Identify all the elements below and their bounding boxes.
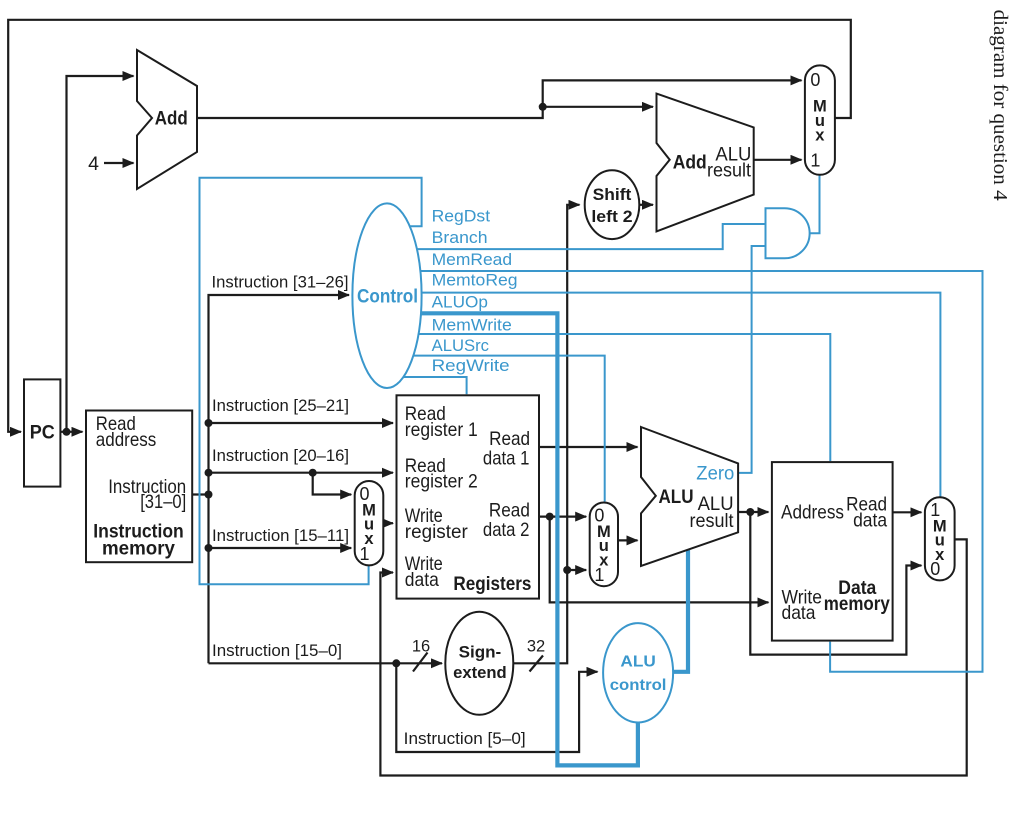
- svg-text:control: control: [610, 677, 667, 694]
- wire: Read data 2 to data memory Write data: [550, 517, 769, 603]
- registers file: [397, 395, 540, 598]
- svg-text:Read: Read: [489, 428, 530, 450]
- PC register: [24, 379, 60, 486]
- svg-text:left 2: left 2: [591, 207, 632, 226]
- wire: Read data 1 to ALU input 1: [539, 446, 638, 448]
- wire: RegWrite control to Registers: [401, 377, 467, 394]
- svg-text:32: 32: [527, 638, 545, 656]
- wire: ALU result bypass to MemtoReg mux input 0: [750, 512, 921, 655]
- svg-text:Instruction [25–21]: Instruction [25–21]: [212, 397, 349, 415]
- junction on PC output: [63, 428, 71, 436]
- wire: instruction memory output to instruction bus trunk: [192, 493, 208, 495]
- wire: PC+4 to branch adder input 1: [543, 106, 653, 108]
- svg-text:register 2: register 2: [405, 471, 478, 493]
- svg-text:MemRead: MemRead: [432, 251, 512, 269]
- svg-text:Registers: Registers: [453, 573, 531, 595]
- wire: constant 4 to Add input 2: [104, 162, 134, 164]
- wire: Read data to MemtoReg mux input 1: [893, 511, 922, 513]
- wire: Instruction [25-21] to Read register 1: [209, 422, 394, 424]
- svg-text:RegDst: RegDst: [432, 208, 491, 226]
- wire: Instruction [15-0] to sign-extend: [209, 662, 443, 664]
- svg-text:diagram for question 4: diagram for question 4: [989, 10, 1010, 201]
- wire: sign-extend output to ALUSrc mux input 1: [567, 569, 586, 571]
- svg-text:Instruction [5–0]: Instruction [5–0]: [404, 730, 526, 748]
- wire: Add (PC+4) output to branch mux input 0: [197, 80, 802, 118]
- junction: Instruction [20-16] branch to RegDst mux: [309, 469, 317, 477]
- wire: MemtoReg mux output writeback to Write data: [380, 539, 966, 775]
- junction: trunk at Instruction [15-11]: [205, 544, 213, 552]
- junction: trunk at Instruction [25-21]: [205, 419, 213, 427]
- mux branch (PCSrc): [805, 65, 835, 174]
- svg-text:RegWrite: RegWrite: [432, 357, 510, 375]
- junction: sign-extend output branch to ALUSrc mux: [563, 566, 571, 574]
- svg-text:data: data: [782, 602, 816, 624]
- svg-text:1: 1: [810, 150, 820, 170]
- svg-text:memory: memory: [102, 537, 175, 559]
- junction: trunk at instruction memory output: [205, 491, 213, 499]
- wire: ALUSrc mux output to ALU input 2: [618, 539, 638, 541]
- wire: MemtoReg control to MemtoReg mux select: [420, 293, 940, 499]
- svg-text:Branch: Branch: [432, 229, 488, 247]
- svg-text:Instruction [15–11]: Instruction [15–11]: [212, 527, 349, 545]
- svg-text:ALU: ALU: [620, 654, 655, 671]
- svg-text:1: 1: [359, 544, 369, 564]
- wire: RegDst control to RegDst mux select: [200, 178, 422, 585]
- svg-text:result: result: [707, 160, 752, 182]
- svg-text:0: 0: [810, 70, 820, 90]
- svg-text:Read: Read: [489, 499, 530, 521]
- wire: PC output to instruction memory Read address: [60, 431, 82, 433]
- svg-text:data: data: [853, 509, 887, 531]
- svg-text:MemtoReg: MemtoReg: [432, 272, 518, 290]
- adder Add (PC+4): [137, 50, 197, 189]
- wire: Shift left 2 to branch adder input 2: [640, 204, 653, 206]
- wire: sign-extend output up to Shift left 2: [513, 205, 579, 664]
- svg-text:0: 0: [930, 559, 940, 579]
- junction: trunk at Instruction [20-16]: [205, 469, 213, 477]
- svg-text:ALU: ALU: [659, 486, 694, 508]
- svg-text:extend: extend: [453, 663, 507, 682]
- wire: AND gate output to branch mux select: [809, 174, 820, 233]
- junction: Instruction [15-0] branch to ALU control: [392, 659, 400, 667]
- AND gate (branch): [766, 208, 810, 258]
- svg-text:Zero: Zero: [696, 463, 734, 485]
- svg-text:ALUSrc: ALUSrc: [432, 337, 489, 355]
- svg-text:memory: memory: [824, 593, 890, 615]
- svg-text:register 1: register 1: [405, 419, 478, 441]
- svg-text:4: 4: [88, 153, 99, 175]
- oval Shift left 2: [585, 170, 640, 239]
- svg-text:[31–0]: [31–0]: [140, 491, 186, 513]
- svg-text:Address: Address: [781, 501, 844, 523]
- svg-text:Control: Control: [357, 286, 418, 308]
- junction: ALU result branch: [746, 508, 754, 516]
- wire: Branch control to AND gate input 1: [415, 224, 766, 249]
- control unit oval: [352, 203, 421, 388]
- svg-text:address: address: [96, 429, 157, 451]
- oval ALU control: [603, 623, 673, 722]
- wire: Instruction [5-0] to ALU control: [396, 663, 597, 752]
- wire: ALUOp control to ALU control (2-bit): [419, 313, 638, 765]
- svg-text:Sign-: Sign-: [459, 643, 502, 662]
- adder Add ALU result (branch target): [657, 94, 754, 232]
- svg-text:x: x: [815, 126, 825, 144]
- junction: Read data 2 branch: [546, 513, 554, 521]
- wire: branch mux output feedback to PC input: [8, 20, 851, 432]
- wire: PC output up to Add input 1: [67, 76, 134, 432]
- data memory: [772, 462, 893, 640]
- wire: ALU result to data memory Address: [738, 511, 768, 513]
- mux RegDst (write register): [355, 481, 384, 565]
- svg-text:Instruction [20–16]: Instruction [20–16]: [212, 447, 349, 465]
- svg-text:ALUOp: ALUOp: [432, 294, 488, 312]
- svg-text:Add: Add: [155, 108, 188, 130]
- svg-text:Add: Add: [673, 151, 707, 173]
- svg-text:result: result: [690, 510, 735, 532]
- wire: instruction bus trunk and Instruction [31-26] to Control: [209, 295, 350, 663]
- wire: MemWrite control to data memory: [417, 334, 830, 461]
- wire: MemRead control to data memory: [419, 271, 983, 672]
- svg-text:1: 1: [594, 565, 604, 585]
- svg-text:16: 16: [412, 638, 430, 656]
- wire: branch adder result to branch mux input 1: [754, 159, 802, 161]
- bus width slash 32: [530, 656, 544, 672]
- wire: Zero flag to AND gate input 2: [738, 246, 766, 473]
- instruction memory: [86, 411, 192, 563]
- wire: Instruction [20-16] to RegDst mux input 0: [313, 473, 352, 495]
- mux ALUSrc: [590, 503, 618, 587]
- wire: Read data 2 to ALUSrc mux input 0: [539, 515, 586, 517]
- svg-text:Instruction [15–0]: Instruction [15–0]: [212, 642, 342, 660]
- svg-text:data 2: data 2: [483, 519, 530, 541]
- ALU main: [641, 427, 738, 566]
- wire: ALUSrc control to ALUSrc mux select: [412, 356, 605, 502]
- svg-text:data: data: [405, 569, 439, 591]
- wire: ALU control output to ALU operation input: [672, 549, 688, 672]
- svg-text:MemWrite: MemWrite: [432, 316, 512, 334]
- mux MemtoReg: [925, 497, 955, 580]
- svg-text:Instruction [31–26]: Instruction [31–26]: [212, 274, 349, 292]
- oval Sign-extend: [445, 612, 513, 715]
- wire: Instruction [15-11] to RegDst mux input 1: [209, 547, 352, 549]
- wire: Instruction [20-16] to Read register 2: [209, 472, 394, 474]
- svg-text:Shift: Shift: [593, 185, 632, 204]
- junction on PC+4 wire: [539, 103, 547, 111]
- wire: RegDst mux output to Write register: [383, 522, 393, 524]
- svg-text:register: register: [405, 521, 468, 543]
- svg-text:PC: PC: [30, 422, 55, 444]
- bus width slash 16: [413, 653, 428, 672]
- svg-text:data 1: data 1: [483, 448, 530, 470]
